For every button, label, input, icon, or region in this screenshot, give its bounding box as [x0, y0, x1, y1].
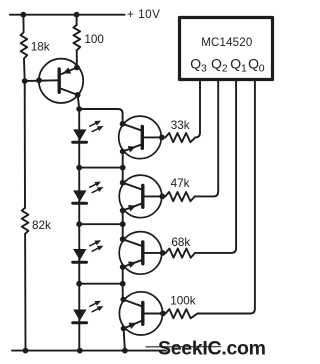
LED D4 emission arrows [90, 302, 99, 307]
LED D3 [73, 240, 104, 262]
svg-text:82k: 82k [32, 219, 51, 232]
svg-text:+ 10V: + 10V [127, 8, 160, 21]
base wire to left rail [25, 79, 58, 82]
collector lead Q2 [123, 183, 142, 190]
node rail4 at LED column [76, 281, 82, 287]
collector lead Q4 [123, 300, 142, 307]
collector lead [61, 89, 78, 95]
node rail2 at transistor column [120, 165, 126, 171]
wire +10V top rail [10, 14, 125, 16]
base lead Q2 [144, 195, 166, 197]
resistor R5 47k [165, 192, 195, 201]
node Q1 collector [120, 121, 126, 127]
node LED column top [76, 106, 82, 112]
base lead Q1 [143, 136, 165, 138]
pin Q3 label [190, 56, 264, 75]
transistor Q5 PNP (top) [22, 59, 83, 103]
resistor R2 100 [73, 15, 80, 68]
svg-text:18k: 18k [31, 41, 50, 54]
base lead Q4 [144, 313, 166, 315]
emitter lead with arrow Q4 [124, 321, 142, 329]
node Q4 collector [120, 297, 126, 303]
svg-text:100k: 100k [170, 295, 196, 308]
emitter lead with arrow Q2 [123, 204, 142, 211]
base bar [58, 69, 61, 92]
LED D2 emission arrows [90, 183, 99, 188]
wire emitter column segments [122, 152, 124, 183]
node rail4 at transistor column [120, 281, 126, 287]
wire stage rail 1 (top) with corner to Q1 collector [79, 109, 122, 124]
emitter lead with arrow (PNP, arrow toward bar) [62, 68, 77, 75]
resistor R7 100k [166, 309, 198, 318]
wire R5 to Q2 pin [195, 81, 218, 196]
LED D2 [73, 182, 104, 204]
svg-text:100: 100 [84, 33, 104, 46]
svg-text:Q2: Q2 [211, 56, 228, 75]
base lead Q3 [144, 252, 166, 254]
wire bottom rail continuation behind watermark [146, 346, 221, 348]
transistor Q3 (stage 3) [119, 232, 165, 275]
wire stage rail 2 [79, 167, 123, 169]
node Q2 collector [120, 180, 126, 186]
collector lead Q1 [123, 124, 141, 131]
node base/18k/82k junction [22, 78, 28, 84]
node base at circle [36, 77, 42, 83]
wire stage rail 4 [79, 283, 123, 285]
node emitter / R2 junction [74, 65, 80, 71]
svg-text:Q0: Q0 [248, 56, 265, 75]
LED D1 [73, 121, 104, 143]
svg-text:68k: 68k [171, 236, 190, 249]
LED D3 emission arrows [90, 241, 99, 246]
node junction dot top rail / 100 [74, 12, 80, 18]
node Q1 base [159, 135, 165, 141]
wire bottom rail (ground return) [12, 350, 166, 352]
svg-text:Q1: Q1 [230, 56, 247, 75]
node collector junction [75, 92, 81, 98]
wire R6 to Q1 pin [195, 81, 236, 253]
svg-text:47k: 47k [171, 177, 190, 190]
LED D4 [73, 301, 104, 323]
transistor Q4 (stage 4) [119, 292, 165, 335]
resistor R1 18k [21, 15, 28, 81]
node Q1 emitter [120, 149, 126, 155]
svg-text:MC14520: MC14520 [201, 37, 252, 49]
wire R4 to Q3 pin [195, 81, 200, 137]
node Q2 base [159, 194, 165, 200]
wire R7 to Q0 pin [198, 81, 255, 314]
node rail2 at LED column [76, 165, 82, 171]
resistor R3 82k [22, 81, 29, 350]
node Q4 emitter [121, 326, 127, 332]
node Q2 emitter [120, 208, 126, 214]
svg-text:Q3: Q3 [190, 56, 207, 75]
node bottom rail / Q4 emitter [122, 348, 128, 354]
node bottom rail / 82k [23, 348, 29, 354]
node Q4 base [160, 311, 166, 317]
collector lead Q3 [123, 239, 142, 246]
svg-text:33k: 33k [171, 119, 190, 132]
emitter lead with arrow Q3 [123, 260, 142, 267]
node bottom rail / LED column [77, 348, 83, 354]
node rail3 at transistor column [120, 221, 126, 227]
transistor Q2 (stage 2) [119, 175, 165, 218]
wire LED column [78, 109, 80, 350]
node Q3 collector [120, 236, 126, 242]
wire collector to LED column [78, 95, 80, 109]
resistor R6 68k [166, 249, 196, 258]
node junction dot top rail / 18k [20, 12, 26, 18]
op-amp U1 MC14520 counter box [180, 18, 273, 80]
transistor Q1 (stage 1) [119, 116, 166, 159]
node rail3 at LED column [76, 221, 82, 227]
emitter lead with arrow Q1 [123, 145, 141, 152]
LED D1 emission arrows [90, 122, 99, 127]
svg-text:SeekIC.com: SeekIC.com [158, 338, 266, 360]
node Q3 emitter [120, 264, 126, 270]
wire stage rail 3 [79, 223, 123, 225]
node Q3 base [160, 250, 166, 256]
resistor R4 33k [165, 133, 195, 142]
